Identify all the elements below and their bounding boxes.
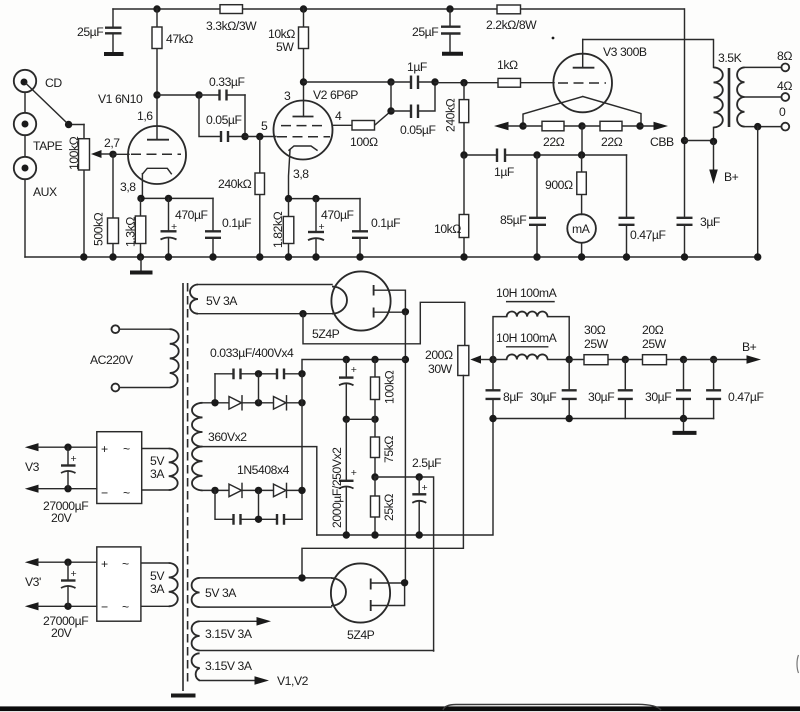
svg-text:V2 6P6P: V2 6P6P — [313, 88, 358, 102]
bridge rectifier BR1 — [97, 432, 142, 504]
node coupling split V2 — [387, 78, 394, 85]
resistor R 200/30W adjustable — [425, 346, 493, 377]
capacitor 0.05uF (V2-V3) — [387, 82, 435, 137]
svg-text:0.47µF: 0.47µF — [728, 390, 764, 404]
svg-text:V3 300B: V3 300B — [603, 45, 647, 59]
svg-text:470µF: 470µF — [175, 208, 208, 222]
capacitor 2000uF/250V (lower) — [330, 419, 357, 535]
wire divider mid row — [346, 418, 375, 420]
capacitor 27000uF/20V (V3) — [25, 447, 88, 525]
svg-text:~: ~ — [122, 600, 129, 614]
node coupling out — [431, 78, 438, 85]
ground (signal rail) — [140, 257, 142, 271]
filament hum row: arrow left — [494, 122, 509, 131]
capacitor 0.47uF — [619, 155, 666, 257]
svg-text:B+: B+ — [742, 340, 757, 354]
terminal 0 ohm — [781, 123, 789, 131]
capacitor 3uF — [677, 9, 720, 257]
winding 360Vx2 HT — [192, 403, 247, 491]
svg-text:1.82kΩ: 1.82kΩ — [271, 211, 285, 248]
node plates bus / filter row — [402, 356, 409, 363]
svg-text:5V: 5V — [150, 454, 165, 468]
svg-text:1µF: 1µF — [407, 60, 427, 74]
choke 10H 100mA (lower) — [493, 331, 569, 360]
node diode row left (upper) — [211, 399, 218, 406]
svg-text:−: − — [101, 600, 108, 614]
svg-text:0: 0 — [779, 105, 786, 119]
winding 5V 3A (left, V3 filament) — [142, 449, 178, 491]
svg-text:1,6: 1,6 — [137, 109, 153, 123]
node ground row dots — [489, 415, 496, 422]
svg-text:~: ~ — [123, 442, 130, 456]
resistor R 20/25W — [625, 323, 683, 365]
node 27000uF top — [64, 444, 71, 451]
winding 3.15V 3A (lower half) — [192, 653, 309, 688]
arrow V3' filament - — [25, 602, 39, 610]
svg-text:25W: 25W — [584, 337, 609, 351]
svg-text:CD: CD — [45, 76, 62, 90]
svg-text:0.05µF: 0.05µF — [400, 123, 436, 137]
svg-text:4: 4 — [335, 109, 342, 123]
svg-text:1N5408x4: 1N5408x4 — [237, 463, 290, 477]
resistor R 1.3k — [124, 198, 146, 257]
jack AUX — [14, 157, 57, 199]
capacitor 1uF coupling — [391, 60, 435, 89]
node divider mid row — [343, 416, 350, 423]
ground (right 25uF) — [442, 52, 463, 56]
svg-text:22Ω: 22Ω — [543, 135, 565, 149]
node OPT primary bottom — [710, 138, 717, 145]
svg-text:8µF: 8µF — [503, 390, 523, 404]
capacitor 0.05uF (V1-V2) — [199, 95, 245, 142]
power transformer T1 core — [182, 283, 184, 691]
rail junction dots — [80, 253, 87, 260]
node lower rectifier output — [298, 574, 305, 581]
node filament left — [519, 122, 526, 129]
wire jack chain — [24, 92, 26, 257]
svg-text:240kΩ: 240kΩ — [444, 98, 458, 132]
svg-text:AUX: AUX — [33, 185, 57, 199]
wire plate to coupling caps — [157, 94, 199, 96]
svg-text:V3: V3 — [25, 460, 40, 474]
winding AC220V primary — [90, 329, 179, 387]
wire V3 plate to OPT — [583, 40, 714, 68]
svg-text:3: 3 — [284, 89, 291, 103]
svg-text:3.15V 3A: 3.15V 3A — [205, 627, 253, 641]
svg-text:20Ω: 20Ω — [642, 323, 664, 337]
svg-text:200Ω: 200Ω — [425, 348, 453, 362]
svg-text:0.1µF: 0.1µF — [371, 216, 400, 230]
svg-text:+: + — [71, 453, 77, 465]
svg-text:0.05µF: 0.05µF — [206, 113, 242, 127]
svg-text:10kΩ: 10kΩ — [434, 222, 461, 236]
resistor R 30/25W — [569, 323, 625, 365]
terminal AC220V bottom — [112, 384, 120, 392]
capacitor snubber row 0.033uF (lower) — [215, 490, 302, 524]
svg-text:2.2kΩ/8W: 2.2kΩ/8W — [486, 18, 537, 32]
svg-text:75kΩ: 75kΩ — [382, 436, 396, 463]
svg-text:900Ω: 900Ω — [545, 178, 573, 192]
node 2000uF bottom — [343, 531, 350, 538]
node 10k top — [460, 151, 467, 158]
capacitor 2.5uF — [412, 456, 441, 535]
svg-text:1kΩ: 1kΩ — [497, 58, 518, 72]
node 27000uF' bottom — [64, 603, 71, 610]
svg-text:470µF: 470µF — [321, 208, 354, 222]
resistor R 47k — [152, 9, 193, 95]
wire first filter row — [302, 360, 405, 374]
arrow right CBB — [640, 125, 655, 127]
svg-text:+: + — [171, 221, 177, 233]
resistor R 10k 5W — [268, 9, 309, 82]
node choke input — [489, 356, 496, 363]
wire rectifier output loop to 200R — [303, 302, 465, 345]
svg-text:100kΩ: 100kΩ — [383, 370, 397, 404]
wire cathode row y155 — [464, 154, 627, 156]
capacitor 30uF (1) — [530, 360, 577, 419]
svg-text:360Vx2: 360Vx2 — [208, 430, 247, 444]
svg-text:25W: 25W — [642, 337, 667, 351]
svg-text:+: + — [101, 557, 108, 571]
capacitor 1uF (feedback) — [494, 149, 514, 180]
svg-text:+: + — [422, 482, 428, 494]
capacitor 2000uF/250V (upper) — [339, 360, 357, 420]
node filament right — [636, 122, 643, 129]
node junction 10k/rail — [300, 5, 307, 12]
node 5Z4P lower plates — [401, 579, 408, 586]
svg-text:TAPE: TAPE — [33, 139, 62, 153]
arrow V3 filament - — [25, 485, 39, 493]
wire negative return row — [317, 419, 493, 536]
svg-text:5Z4P: 5Z4P — [347, 628, 375, 642]
node diode row right (upper) — [298, 399, 305, 406]
scan artifact rounded box edge — [443, 704, 661, 710]
meter mA — [567, 214, 596, 257]
node 2000uF top — [343, 356, 350, 363]
wire bottom ground rail — [25, 256, 758, 258]
svg-text:+: + — [351, 467, 357, 479]
arrow B+ output — [684, 340, 762, 364]
svg-text:−: − — [101, 486, 108, 500]
node filament center — [578, 122, 585, 129]
capacitor 25uF (right filter) — [412, 9, 461, 52]
resistor R 240k (V2 grid) — [218, 137, 265, 258]
diode row (lower) D3 D4 — [203, 463, 303, 497]
svg-text:3.15V 3A: 3.15V 3A — [205, 659, 253, 673]
svg-text:5V: 5V — [150, 569, 165, 583]
wire secondary return — [757, 127, 759, 257]
node diode row mid (lower) — [255, 487, 262, 494]
svg-text:47kΩ: 47kΩ — [166, 32, 193, 46]
svg-text:3,8: 3,8 — [120, 180, 136, 194]
node filter tap 2 — [680, 356, 687, 363]
capacitor 0.47uF (output) — [706, 360, 763, 419]
ground (transformer core) — [171, 694, 196, 698]
svg-text:3µF: 3µF — [700, 215, 720, 229]
node 85uF top — [533, 151, 540, 158]
node 3uF / B+ branch — [681, 137, 688, 144]
capacitor 470uF (V1) — [161, 198, 208, 257]
svg-text:V3': V3' — [25, 575, 41, 589]
svg-text:30µF: 30µF — [645, 390, 671, 404]
node secondary return — [754, 123, 761, 130]
resistor R 22 (left) — [523, 121, 582, 149]
svg-text:5V 3A: 5V 3A — [206, 294, 238, 308]
svg-text:5V 3A: 5V 3A — [205, 586, 237, 600]
svg-text:AC220V: AC220V — [90, 353, 134, 367]
resistor R 2.2k/8W — [486, 5, 537, 32]
winding 5V 3A (left, V3' filament) — [141, 563, 178, 606]
svg-text:30Ω: 30Ω — [584, 323, 606, 337]
svg-text:2.5µF: 2.5µF — [412, 456, 441, 470]
resistor R 22 (right) — [582, 121, 640, 149]
svg-text:+: + — [351, 364, 357, 376]
resistor R 1k grid stopper — [497, 58, 521, 87]
svg-text:+: + — [319, 221, 325, 233]
node 100k top — [371, 356, 378, 363]
svg-text:10kΩ: 10kΩ — [268, 27, 295, 41]
wire rectifier + bus — [301, 374, 303, 520]
output transformer core — [728, 68, 731, 127]
capacitor 30uF (3) — [645, 360, 691, 419]
node coupling split — [195, 91, 202, 98]
svg-text:+: + — [101, 442, 108, 456]
arrow V3 filament + — [25, 443, 39, 451]
resistor R 240k (V3 grid) — [444, 83, 469, 155]
wire 3.15V centre — [200, 650, 434, 652]
scan artifact bottom bar — [0, 706, 800, 711]
tube 5Z4P (lower rectifier) — [331, 563, 405, 642]
output transformer T2 primary — [714, 51, 742, 141]
svg-text:100kΩ: 100kΩ — [67, 136, 81, 170]
svg-text:10H 100mA: 10H 100mA — [496, 331, 558, 345]
svg-text:+: + — [71, 568, 77, 580]
ground (left 25uF) — [104, 52, 124, 56]
svg-text:25kΩ: 25kΩ — [382, 494, 396, 521]
svg-text:2000µF/250Vx2: 2000µF/250Vx2 — [330, 447, 344, 528]
svg-text:5W: 5W — [276, 40, 294, 54]
output transformer secondary — [737, 67, 781, 126]
svg-text:0.033µF/400Vx4: 0.033µF/400Vx4 — [210, 346, 294, 360]
svg-text:CBB: CBB — [650, 135, 674, 149]
wire snubber left leg (upper) — [214, 374, 216, 403]
wire input selector — [26, 84, 84, 125]
node filter tap 3 — [710, 356, 717, 363]
node diode row left (lower) — [211, 487, 218, 494]
svg-text:20V: 20V — [51, 511, 73, 525]
svg-text:V1 6N10: V1 6N10 — [98, 92, 143, 106]
node junction 25uF/rail — [446, 5, 453, 12]
potentiometer 100k volume — [67, 125, 113, 258]
svg-text:3.3kΩ/3W: 3.3kΩ/3W — [206, 19, 257, 33]
node V1 plate — [153, 91, 160, 98]
resistor R 100k bleeder — [371, 360, 397, 420]
wire to OPT bottom — [685, 140, 714, 142]
wire tap row to 3.15V CT — [375, 477, 434, 651]
node 900R top — [578, 151, 585, 158]
svg-text:mA: mA — [572, 222, 591, 236]
capacitor 470uF (V2) — [308, 199, 354, 257]
svg-text:5: 5 — [261, 119, 268, 133]
svg-text:~: ~ — [123, 486, 130, 500]
wire filament center down — [581, 126, 583, 155]
tube V1 6N10 — [98, 92, 186, 198]
svg-text:2,7: 2,7 — [104, 136, 120, 150]
capacitor 0.1uF (V2) — [352, 199, 400, 257]
node 240k V3 — [460, 79, 467, 86]
capacitor 0.1uF (V1) — [205, 198, 251, 257]
resistor R 500k — [92, 154, 119, 257]
svg-text:10H 100mA: 10H 100mA — [496, 286, 558, 300]
node 240k tap — [256, 133, 263, 140]
jack CD — [14, 70, 63, 92]
node divider tap row — [371, 473, 378, 480]
tube V3 300B — [523, 37, 647, 126]
wire to V2 grid — [245, 136, 276, 138]
tube V2 6P6P — [261, 82, 358, 199]
capacitor 30uF (2) — [588, 360, 633, 419]
svg-text:4Ω: 4Ω — [777, 79, 792, 93]
svg-text:5Z4P: 5Z4P — [312, 327, 340, 341]
arrow V3' filament + — [25, 558, 39, 566]
svg-text:0.33µF: 0.33µF — [209, 75, 245, 89]
node V2 grid wire — [241, 133, 248, 140]
svg-text:1µF: 1µF — [494, 165, 514, 179]
svg-text:3A: 3A — [150, 467, 165, 481]
scan artifact right edge curve — [797, 655, 799, 673]
svg-text:20V: 20V — [51, 626, 73, 640]
svg-text:85µF: 85µF — [500, 213, 526, 227]
node choke output — [566, 356, 573, 363]
wire plates bus down — [404, 312, 406, 583]
V2 cathode row — [289, 198, 361, 200]
node 2.5uF top — [416, 473, 423, 480]
svg-text:B+: B+ — [724, 170, 739, 184]
terminal 8 ohm — [781, 64, 789, 72]
svg-text:22Ω: 22Ω — [601, 135, 623, 149]
svg-text:V1,V2: V1,V2 — [277, 674, 309, 688]
svg-text:30W: 30W — [428, 362, 453, 376]
winding 5V 3A (top rectifier heater) — [190, 285, 332, 314]
wire to V3 grid — [435, 82, 554, 84]
node junction 47k/rail — [153, 5, 160, 12]
node snubber mid (upper) — [255, 370, 262, 377]
node 2.5uF bottom — [416, 531, 423, 538]
svg-text:3A: 3A — [150, 582, 165, 596]
svg-text:3,8: 3,8 — [293, 167, 309, 181]
node snubber right (upper) — [298, 370, 305, 377]
svg-text:25µF: 25µF — [77, 25, 103, 39]
choke 10H 100mA (upper) — [493, 286, 569, 360]
resistor R 10k (V3 cathode) — [434, 155, 469, 257]
wire V2 plate row — [304, 81, 392, 83]
node selector/pot — [65, 121, 72, 128]
resistor R 25k — [371, 477, 397, 535]
terminal AC220V top — [112, 325, 120, 333]
capacitor 27000uF/20V (V3') — [25, 562, 88, 640]
resistor R 75k — [371, 419, 397, 477]
svg-text:3.5K: 3.5K — [718, 51, 742, 65]
svg-text:240kΩ: 240kΩ — [218, 177, 252, 191]
svg-text:30µF: 30µF — [530, 390, 556, 404]
node 27000uF' top — [64, 559, 71, 566]
resistor R 100 screen — [333, 111, 392, 149]
node rectifier output (filament) — [299, 310, 306, 317]
capacitor snubber row 0.033uF (upper) — [210, 346, 302, 379]
node snubber mid (lower) — [255, 516, 262, 523]
capacitor 25uF (left filter) — [77, 9, 122, 52]
winding 3.15V 3A (upper half) — [192, 617, 271, 651]
diode row (upper) D1 D2 — [203, 396, 303, 410]
svg-text:8Ω: 8Ω — [777, 49, 792, 63]
node filter tap 1 — [622, 356, 629, 363]
node V2 plate — [300, 78, 307, 85]
wire filter ground row — [493, 418, 714, 420]
svg-text:25µF: 25µF — [412, 25, 438, 39]
svg-text:~: ~ — [122, 557, 129, 571]
node 5Z4P plates — [402, 308, 409, 315]
node 25k bottom — [371, 531, 378, 538]
resistor R 900 — [545, 155, 586, 215]
svg-text:100Ω: 100Ω — [350, 135, 378, 149]
resistor R 3.3k/3W — [206, 5, 257, 33]
resistor R 1.82k — [271, 199, 294, 257]
node 27000uF bottom — [64, 485, 71, 492]
bridge rectifier BR2 — [97, 547, 141, 621]
V1 cathode row — [141, 197, 214, 199]
ground (B+ filter) — [683, 419, 685, 431]
jack TAPE — [14, 113, 63, 153]
capacitor 8uF — [486, 360, 523, 419]
wire grid V1 — [113, 153, 129, 155]
arrow B+ feed — [709, 141, 738, 184]
node diode row mid (upper) — [255, 399, 262, 406]
svg-text:30µF: 30µF — [588, 390, 614, 404]
capacitor 85uF — [500, 155, 546, 257]
wire HT centre tap — [203, 447, 317, 535]
svg-text:1.3kΩ: 1.3kΩ — [124, 217, 138, 247]
wire top B+ rail — [113, 8, 684, 10]
node diode row right (lower) — [298, 487, 305, 494]
winding 5V 3A (lower rectifier heater) — [192, 578, 331, 607]
svg-text:0.47µF: 0.47µF — [630, 228, 666, 242]
svg-text:500kΩ: 500kΩ — [92, 212, 106, 246]
wire 200R bottom return — [302, 376, 463, 578]
capacitor 0.33uF — [199, 75, 245, 101]
wire snubber mid leg (upper) — [258, 374, 260, 403]
svg-text:0.1µF: 0.1µF — [222, 216, 251, 230]
node pot wiper / 500k / grid — [109, 151, 116, 158]
tube 5Z4P (upper rectifier) — [312, 271, 405, 341]
terminal 4 ohm — [781, 93, 789, 101]
